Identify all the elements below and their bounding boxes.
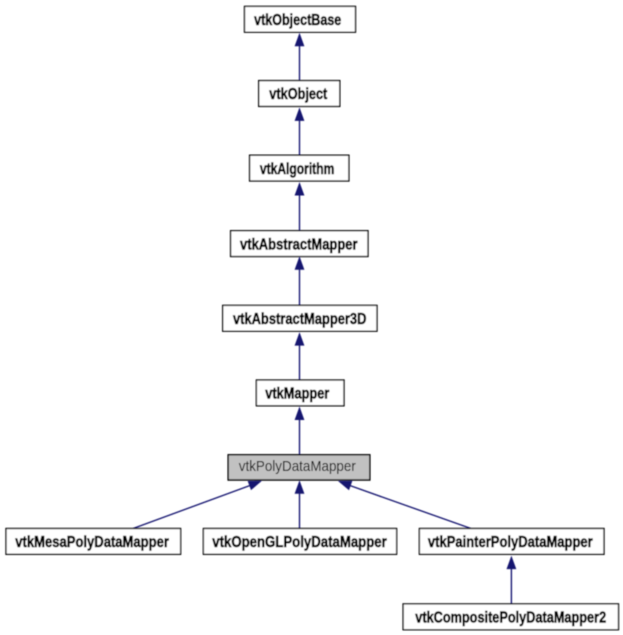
svg-text:vtkAbstractMapper3D: vtkAbstractMapper3D xyxy=(233,311,367,328)
node vtkPolyDataMapper (highlighted) xyxy=(228,455,370,480)
svg-text:vtkPainterPolyDataMapper: vtkPainterPolyDataMapper xyxy=(428,534,593,551)
svg-text:vtkCompositePolyDataMapper2: vtkCompositePolyDataMapper2 xyxy=(415,610,606,627)
node vtkMapper xyxy=(256,380,344,406)
arrow vtkPainterPolyDataMapper to vtkPolyDataMapper (diagonal right) xyxy=(338,481,471,529)
svg-text:vtkOpenGLPolyDataMapper: vtkOpenGLPolyDataMapper xyxy=(212,534,387,551)
arrow vtkOpenGLPolyDataMapper to vtkPolyDataMapper (vertical) xyxy=(295,480,305,529)
svg-text:vtkAlgorithm: vtkAlgorithm xyxy=(260,161,334,178)
arrow vtkObject to vtkObjectBase xyxy=(295,33,305,81)
node vtkObject xyxy=(259,81,340,107)
svg-text:vtkObject: vtkObject xyxy=(269,86,328,103)
arrow vtkMesaPolyDataMapper to vtkPolyDataMapper (diagonal left) xyxy=(133,481,262,529)
node vtkPainterPolyDataMapper xyxy=(419,529,604,555)
arrow vtkPolyDataMapper to vtkMapper xyxy=(295,407,305,456)
arrow vtkAlgorithm to vtkObject xyxy=(295,107,305,155)
node vtkOpenGLPolyDataMapper xyxy=(203,529,396,555)
node vtkAlgorithm xyxy=(250,155,349,181)
svg-text:vtkAbstractMapper: vtkAbstractMapper xyxy=(240,236,358,253)
arrow vtkCompositePolyDataMapper2 to vtkPainterPolyDataMapper xyxy=(507,556,517,604)
arrow vtkAbstractMapper to vtkAlgorithm xyxy=(295,182,305,231)
node vtkCompositePolyDataMapper2 xyxy=(403,604,618,630)
svg-text:vtkMapper: vtkMapper xyxy=(265,386,329,403)
node vtkMesaPolyDataMapper xyxy=(6,529,181,555)
node vtkObjectBase xyxy=(245,6,356,32)
svg-text:vtkMesaPolyDataMapper: vtkMesaPolyDataMapper xyxy=(15,534,169,551)
node vtkAbstractMapper xyxy=(231,231,368,257)
arrow vtkAbstractMapper3D to vtkAbstractMapper xyxy=(295,256,305,305)
node vtkAbstractMapper3D xyxy=(223,305,377,331)
arrow vtkMapper to vtkAbstractMapper3D xyxy=(295,332,305,380)
svg-text:vtkObjectBase: vtkObjectBase xyxy=(254,12,341,29)
svg-text:vtkPolyDataMapper: vtkPolyDataMapper xyxy=(239,458,356,475)
